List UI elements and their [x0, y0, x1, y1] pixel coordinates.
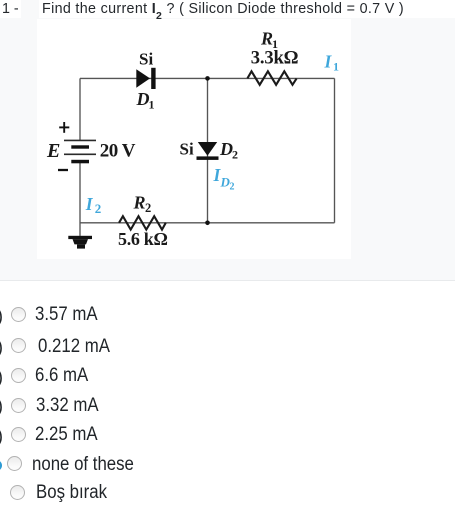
option f radio: [7, 456, 22, 471]
junction node top: [205, 76, 210, 81]
resistor R2 zigzag: [119, 216, 166, 229]
diode D1: [136, 68, 155, 89]
resistor R1 zigzag: [247, 71, 296, 85]
option c paren: [0, 367, 3, 388]
option f blue mark: [0, 460, 2, 471]
option e radio: [11, 427, 26, 442]
wire left lower + ground stub: [79, 163, 81, 236]
battery E plates: [64, 140, 96, 163]
plus sign: [59, 122, 69, 133]
labels: [46, 29, 299, 250]
wire D2 branch: [207, 78, 209, 222]
wire right vertical: [334, 78, 336, 222]
option b text: [38, 337, 110, 357]
option c text: [35, 366, 88, 386]
option e paren: [0, 426, 3, 447]
wire bottom: [80, 222, 335, 224]
option g radio: [10, 485, 25, 500]
option e text: [35, 425, 98, 445]
wire top: [80, 77, 335, 79]
option g text: [36, 483, 107, 503]
option a paren: [0, 306, 3, 327]
minus sign: [58, 169, 68, 171]
question title: [0, 2, 455, 18]
option d text: [36, 396, 99, 416]
grey question-body band: [0, 0, 455, 281]
option d paren: [0, 396, 3, 417]
white circuit image box: [37, 19, 351, 259]
white backing behind question text: [39, 0, 455, 18]
option b paren: [0, 337, 3, 358]
white backing behind question number: [0, 0, 21, 18]
ground: [68, 236, 92, 249]
option c radio: [11, 368, 26, 383]
wire left upper: [79, 78, 81, 140]
diode D2: [197, 142, 219, 160]
junction node bottom: [205, 221, 210, 226]
option a radio: [11, 307, 26, 322]
option f text: [32, 455, 134, 475]
option d radio: [11, 398, 26, 413]
option b radio: [11, 338, 26, 353]
option a text: [35, 305, 98, 325]
